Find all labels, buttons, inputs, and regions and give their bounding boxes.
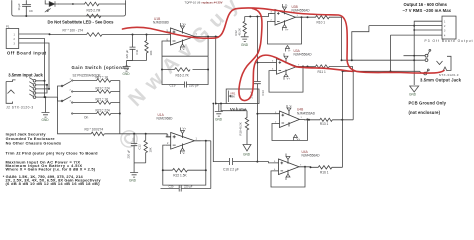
svg-text:~7 V RMS ~200 mA Max: ~7 V RMS ~200 mA Max <box>403 8 452 13</box>
svg-text:C11: C11 <box>135 49 139 54</box>
wire output lower to jack <box>343 71 424 73</box>
resistor R10 <box>302 16 332 19</box>
ground middle <box>123 67 131 72</box>
output jack sleeve <box>447 56 451 70</box>
svg-text:3.5mm Input Jack: 3.5mm Input Jack <box>8 73 43 78</box>
wire C12 R26 join <box>134 163 146 173</box>
capacitor C12 vertical <box>131 134 138 163</box>
junction R10 in <box>307 16 309 18</box>
input jack J2 body <box>6 78 57 113</box>
wire R11 down join <box>352 71 354 120</box>
svg-text:40.2K: 40.2K <box>238 28 242 35</box>
U4B feedback box <box>272 119 307 140</box>
svg-text:J2 STX-3120-3: J2 STX-3120-3 <box>6 106 33 110</box>
connector P1 <box>6 29 22 49</box>
ground output <box>410 86 419 92</box>
ground R18 triangle <box>243 145 251 152</box>
junction cap to rail <box>25 15 27 17</box>
svg-text:R11 1: R11 1 <box>318 70 326 74</box>
V- flag U1B <box>181 44 185 50</box>
junction jack r2 <box>46 84 48 86</box>
P3 pin4 wire <box>391 34 439 36</box>
svg-text:R16 1: R16 1 <box>320 170 329 174</box>
jack contacts circles <box>33 80 36 83</box>
junction U1B out a <box>207 36 209 38</box>
junction P3 pin3 <box>413 29 415 31</box>
resistor R26 vertical <box>144 134 147 163</box>
svg-text:16 µF: 16 µF <box>17 3 21 10</box>
wire to U1A <box>104 134 170 137</box>
wire box bottom to U1B vertical <box>216 103 227 105</box>
svg-text:(not enclosure): (not enclosure) <box>409 110 441 115</box>
junction jack r1 <box>44 80 46 82</box>
junction <box>49 33 51 35</box>
ground R12 <box>241 37 249 42</box>
switch S2 arms <box>61 81 71 101</box>
svg-text:220 pF: 220 pF <box>189 83 199 87</box>
wire U1B out down to pot <box>215 37 217 104</box>
junction P3 gnd <box>413 25 415 27</box>
junction LED wire <box>72 3 74 5</box>
U3A feedback box <box>269 67 303 93</box>
P3 pin1 to jack tip <box>404 55 426 57</box>
svg-text:NJM2068D: NJM2068D <box>153 21 170 25</box>
junction C16 pot <box>212 103 214 105</box>
junction jack r4 <box>44 96 46 98</box>
junction bus tap <box>256 16 258 18</box>
wire R10 down to output <box>332 17 342 60</box>
jack contact arms <box>29 78 33 97</box>
switch contacts tiny <box>72 80 77 114</box>
pot gang symbol <box>229 91 233 103</box>
LED D7 <box>49 2 58 7</box>
svg-text:(6 dB 8 dB 10 dB 12 dB 14: (6 dB 8 dB 10 dB 12 dB 14 dB 16 dB 18 dB… <box>6 181 101 186</box>
junction pot b <box>220 103 222 105</box>
junction C12 top <box>133 133 135 135</box>
red volume detour <box>239 9 353 101</box>
junction jack r3 <box>48 88 50 90</box>
svg-text:R22 1.5K: R22 1.5K <box>173 174 187 178</box>
capacitor C16 <box>229 158 232 165</box>
junction C11 <box>132 34 134 36</box>
op-amp U1A <box>166 133 201 150</box>
svg-text:V+: V+ <box>183 22 187 26</box>
junction bus U4B <box>256 113 258 115</box>
U1A feedback loop box <box>163 141 206 185</box>
wire R11 jog down <box>332 67 353 72</box>
wire bus to U4B plus <box>257 113 274 115</box>
junction R13 in <box>308 119 310 121</box>
junction R11 in <box>307 66 309 68</box>
V- flag U3B top <box>283 4 287 10</box>
C20 wire <box>161 186 211 192</box>
junction bus U3A <box>256 62 258 64</box>
wire pot to R18 <box>221 104 247 111</box>
svg-text:220 µF: 220 µF <box>127 149 131 158</box>
svg-text:10K: 10K <box>149 50 153 55</box>
junction U1B out b <box>215 36 217 38</box>
wire to U1B <box>102 34 170 36</box>
connector P3 <box>438 16 456 39</box>
wire R24 C11 join <box>127 60 147 62</box>
svg-text:220 µF: 220 µF <box>125 49 129 58</box>
svg-text:No Other Chassis Grounds: No Other Chassis Grounds <box>6 141 62 146</box>
junction R16 in <box>310 166 312 168</box>
svg-text:GND: GND <box>129 179 137 183</box>
svg-text:NJM4556AD: NJM4556AD <box>302 154 321 158</box>
svg-text:Do Not Substitute LED - See Do: Do Not Substitute LED - See Docs <box>48 20 115 25</box>
svg-text:V-: V- <box>183 47 186 51</box>
svg-text:Trim J2 Pin3 (outer pin) Very: Trim J2 Pin3 (outer pin) Very Close To B… <box>6 150 99 155</box>
svg-text:replaces #4 25V: replaces #4 25V <box>202 0 223 4</box>
V+ flag U3A fb <box>284 74 288 80</box>
junction R13 out <box>341 119 343 121</box>
junction out lower a <box>342 70 344 72</box>
svg-text:V+: V+ <box>297 137 301 141</box>
op-amp U3A <box>272 59 303 74</box>
resistor R11 <box>303 65 332 68</box>
junction out upper b <box>351 59 353 61</box>
junction gain bus <box>119 113 121 115</box>
vertical U1A out down <box>210 141 212 189</box>
switch pole wire <box>58 86 62 101</box>
U1B feedback loop box <box>162 37 208 85</box>
svg-text:PCB Ground Only: PCB Ground Only <box>409 101 447 106</box>
P3 pin1 wire <box>414 21 438 85</box>
resistor R16 fb <box>175 68 191 72</box>
svg-text:R16 2.7K: R16 2.7K <box>176 73 190 77</box>
wire C16 row <box>213 104 257 162</box>
junction R26 top <box>145 133 147 135</box>
svg-text:V-: V- <box>288 49 291 53</box>
junction out lower b <box>390 70 392 72</box>
pot wire to gnd <box>218 104 220 112</box>
V+ flag U4B fb <box>294 135 298 141</box>
svg-text:Where X = Gain Factor (i.e. fo: Where X = Gain Factor (i.e. for 8 dB X =… <box>6 166 96 171</box>
svg-text:NJM4556AD: NJM4556AD <box>294 53 313 57</box>
output jack contacts <box>424 49 451 75</box>
svg-text:TQFP-10 U6: TQFP-10 U6 <box>185 0 201 4</box>
V- flag U3B below box <box>286 46 290 52</box>
svg-text:R7 * 100 - 274: R7 * 100 - 274 <box>63 29 84 33</box>
resistor R18 vertical <box>245 111 248 145</box>
wire R3 row <box>58 97 92 134</box>
wire U4 outs vertical <box>342 71 344 167</box>
output jack break contacts <box>437 61 448 71</box>
P3 pin2 wire <box>369 25 438 27</box>
svg-text:GND: GND <box>243 153 251 157</box>
svg-text:Output 16 - 600 Ohms: Output 16 - 600 Ohms <box>404 2 448 7</box>
svg-text:C20: C20 <box>169 185 174 189</box>
svg-text:NJM2068D: NJM2068D <box>157 117 174 121</box>
junction U3A out <box>302 66 304 68</box>
capacitor C19 fb <box>185 82 187 88</box>
svg-text:GND: GND <box>123 72 131 76</box>
junction gnd cross <box>413 59 415 61</box>
junction U4A out <box>304 166 306 168</box>
capacitor C13 on bus <box>254 82 261 89</box>
svg-text:V-: V- <box>183 151 186 155</box>
op-amp U1B <box>166 28 201 45</box>
svg-text:C13: C13 <box>261 90 265 96</box>
ground U1A input <box>130 173 138 178</box>
wire bus to U3A plus <box>257 62 271 64</box>
junction jack r5 <box>45 96 47 98</box>
resistor R21 <box>77 101 120 104</box>
red annotation path <box>123 8 445 101</box>
svg-text:On: On <box>84 116 88 120</box>
svg-text:V-: V- <box>285 3 288 7</box>
junction U1A out <box>205 140 207 142</box>
LED arrows <box>45 9 51 13</box>
svg-text:Volume: Volume <box>230 107 247 112</box>
resistor R12 vertical <box>243 17 246 37</box>
resistor R13 <box>305 118 354 121</box>
resistor R6 on rail <box>87 14 101 18</box>
ground volume <box>215 112 223 117</box>
wire <box>59 3 85 5</box>
resistor R3 <box>91 132 104 136</box>
jack sleeve to gnd <box>45 81 46 113</box>
wire <box>99 3 126 5</box>
svg-text:GND: GND <box>215 118 223 122</box>
svg-text:C19: C19 <box>170 83 176 87</box>
wire y16 to U3B <box>245 13 273 16</box>
P3 pin3 wire <box>414 29 438 31</box>
junction R22 left <box>162 169 164 171</box>
svg-text:R25 2.7M: R25 2.7M <box>87 9 101 13</box>
svg-text:C9: C9 <box>29 9 33 13</box>
V- flag U3A top <box>284 53 288 59</box>
svg-text:Off Board Input: Off Board Input <box>7 51 47 56</box>
U4A feedback box <box>271 167 305 187</box>
resistor R24 vertical <box>145 35 148 61</box>
junction fb right <box>207 69 209 71</box>
junction U3B out <box>301 16 303 18</box>
junction pot a <box>215 103 217 105</box>
capacitor C9 <box>22 1 30 17</box>
LED box border <box>12 1 126 17</box>
svg-text:P1: P1 <box>6 25 10 29</box>
wiper bus vertical <box>256 17 258 162</box>
svg-text:R18 40.2K: R18 40.2K <box>239 122 243 135</box>
wire LED feed <box>45 1 49 5</box>
V- flag U4B top <box>287 105 291 111</box>
svg-text:R3 * 100/274: R3 * 100/274 <box>85 127 104 131</box>
svg-text:R10 1: R10 1 <box>317 21 326 25</box>
ground middle stem <box>126 61 128 67</box>
svg-text:NJM4556AD: NJM4556AD <box>297 111 316 115</box>
U3B feedback box <box>268 17 302 44</box>
V+ flag U1A <box>181 128 185 134</box>
svg-text:220 µF: 220 µF <box>184 185 193 189</box>
svg-text:R13 1: R13 1 <box>320 122 329 126</box>
resistor R22 <box>173 168 188 172</box>
wire P1 pin3 down <box>23 43 50 89</box>
svg-text:V+: V+ <box>287 77 291 81</box>
V+ flag U4A fb <box>286 174 290 180</box>
junction bus C16 <box>256 161 258 163</box>
wire output upper to jack <box>342 59 426 61</box>
svg-text:GND: GND <box>241 43 249 47</box>
op-amp U3B <box>270 10 302 26</box>
V- flag U4A top <box>286 154 290 160</box>
U1B output wire <box>201 36 220 38</box>
svg-text:3.5mm Output Jack: 3.5mm Output Jack <box>420 77 462 82</box>
svg-text:10K: 10K <box>148 147 152 152</box>
capacitor C11 at U1B input <box>127 35 136 61</box>
resistor R25 <box>85 2 99 6</box>
op-amp U4B <box>275 111 305 128</box>
gain bus vertical <box>119 81 121 134</box>
resistor R19 <box>77 90 120 93</box>
wire P1 pin2 down <box>23 39 45 81</box>
jack stubs to wires <box>36 81 58 97</box>
junction U4B out <box>306 118 308 120</box>
junction fb left <box>161 69 163 71</box>
svg-text:GND: GND <box>409 93 417 97</box>
P3 pin4 vertical <box>390 35 392 71</box>
svg-text:C16 2.2 µF: C16 2.2 µF <box>223 168 239 172</box>
main input wire <box>23 33 87 36</box>
junction pin1 tip <box>413 55 415 57</box>
wire bus to U4A plus <box>257 162 273 163</box>
ground input jack <box>42 113 50 118</box>
V+ flag U3B fb <box>283 25 287 31</box>
svg-text:10K: 10K <box>230 95 235 99</box>
resistor R17 <box>77 79 120 82</box>
resistor R7 <box>87 33 103 37</box>
junction R24 <box>146 34 148 36</box>
svg-text:Gain Switch (optional): Gain Switch (optional) <box>72 65 130 70</box>
svg-text:V-: V- <box>290 104 293 108</box>
op-amp U4A <box>274 159 305 175</box>
P3 pin2 box path <box>352 26 369 61</box>
svg-text:V+: V+ <box>285 28 289 32</box>
volume pot box <box>226 89 259 104</box>
V+ flag U1B <box>181 23 185 29</box>
U1A output wire <box>201 140 211 142</box>
svg-text:GND: GND <box>42 118 50 122</box>
junction out upper a <box>341 59 343 61</box>
resistor R23 <box>77 112 120 115</box>
svg-text:C12: C12 <box>138 144 142 150</box>
svg-text:P3 Off Board Output: P3 Off Board Output <box>425 39 473 43</box>
V- flag U1A <box>181 148 185 154</box>
red signal path main <box>123 8 445 73</box>
resistor R16 out <box>305 166 343 169</box>
junction R22 right <box>205 169 207 171</box>
junction R12 tap <box>249 16 251 18</box>
svg-text:V+: V+ <box>183 127 187 131</box>
